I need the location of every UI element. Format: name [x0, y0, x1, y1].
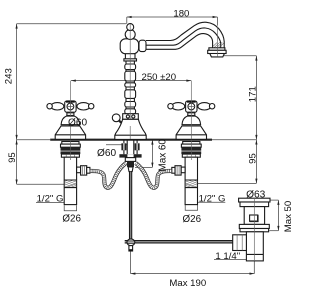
bell base rim line [115, 134, 146, 136]
leader 1/2G right [198, 201, 226, 203]
svg-text:Ø60: Ø60 [68, 118, 87, 129]
drain body [244, 207, 264, 225]
svg-text:Ø60: Ø60 [97, 148, 116, 159]
right valve centerline [190, 81, 192, 139]
center shank below deck [127, 140, 134, 154]
dim Max190 left extension [130, 251, 132, 273]
horseshoe washer [119, 154, 141, 157]
dim 95 left bottom extension [17, 183, 65, 185]
spout ball finial [127, 24, 134, 31]
svg-text:Max 50: Max 50 [283, 201, 294, 232]
leader for center diameter [106, 144, 127, 146]
spout turret [120, 39, 138, 54]
dim 180 arrows [127, 16, 132, 18]
deck extension right [212, 139, 256, 141]
column bell base [115, 119, 146, 139]
drain tailpiece [246, 232, 263, 261]
column neck under turret [125, 54, 135, 59]
svg-text:Max 190: Max 190 [169, 278, 206, 289]
dim Max190 line [131, 273, 255, 275]
dim 95 right line [255, 140, 257, 184]
svg-text:Ø63: Ø63 [246, 189, 266, 200]
deck extension left [17, 139, 51, 141]
left valve centerline [69, 81, 71, 139]
leader 1 1/4 [214, 258, 246, 260]
dim Max50 bottom extension [269, 230, 278, 232]
dim 180 line [127, 16, 218, 18]
column centerline [129, 24, 131, 119]
pop-up lever rod [119, 120, 126, 127]
dim 243 top extension [17, 23, 127, 25]
dim 180 left extension [126, 17, 128, 24]
dim 171 line [255, 56, 257, 140]
svg-text:1/2" G: 1/2" G [199, 194, 226, 205]
column bead 4 [125, 90, 136, 99]
dim 95 left line [16, 140, 18, 185]
drain centerline [253, 198, 255, 261]
linkage rod to drain [125, 241, 233, 243]
column bead 3 [125, 83, 136, 87]
dim 95 left arrows [16, 140, 18, 145]
spout outlet shading [213, 42, 224, 47]
pull rod [130, 172, 132, 240]
svg-text:Ø26: Ø26 [62, 214, 81, 225]
dim 95 right bottom extension [198, 182, 257, 184]
dim 171 arrows [255, 56, 257, 61]
right hose [136, 163, 172, 188]
right valve below deck [172, 140, 201, 205]
dim 250 line [71, 80, 191, 82]
mounting studs [124, 140, 137, 144]
deck / countertop line [50, 139, 212, 141]
spout tube mid line [146, 28, 221, 48]
dim Max190 right extension [253, 261, 255, 274]
column shaft core [126, 61, 134, 114]
svg-text:180: 180 [173, 9, 189, 20]
column bead 2 [125, 71, 136, 81]
svg-text:Ø26: Ø26 [183, 214, 202, 225]
dim 243 arrows [16, 24, 18, 29]
column ring nut with screws [123, 114, 139, 120]
svg-text:1 1/4": 1 1/4" [215, 251, 240, 262]
svg-text:Max 60: Max 60 [157, 139, 168, 172]
bracket dia26 right [185, 205, 197, 211]
dim 171 top extension [224, 55, 256, 57]
drain hex nut [233, 235, 247, 251]
spout ball large [125, 30, 135, 40]
dim Max50 top extension [270, 199, 278, 201]
spout tube outer edge [146, 22, 224, 48]
svg-text:250 ±20: 250 ±20 [141, 72, 176, 83]
column bead 6 [125, 109, 136, 114]
dim 180 right extension [216, 17, 218, 26]
pop-up lever ball [112, 114, 120, 122]
dim Max50 arrows [277, 200, 279, 205]
right handle [168, 101, 215, 139]
BODY [47, 22, 270, 261]
pull rod knob [127, 239, 135, 246]
pull rod tip [129, 246, 133, 251]
spout outlet rings [209, 48, 225, 51]
spout tube inner edge [146, 34, 213, 50]
column bead 1 [125, 64, 136, 70]
mounting bolt left [121, 143, 126, 150]
dim Max50 line [277, 200, 279, 231]
dim Max190 arrows [131, 273, 136, 275]
left hose [90, 163, 126, 188]
leader 1/2G left [36, 202, 64, 204]
mounting bolt right [135, 143, 140, 150]
svg-text:95: 95 [248, 153, 259, 164]
spout collar [139, 40, 146, 51]
bolt stems [124, 150, 137, 154]
svg-text:243: 243 [3, 68, 14, 84]
drain lower plates [239, 224, 269, 228]
bracket dia26 left [64, 205, 76, 211]
column flange ring [124, 59, 137, 61]
hose tee body [125, 158, 135, 162]
left valve below deck [61, 140, 90, 205]
dim 95 right arrows [255, 140, 257, 145]
DIMS [16, 16, 280, 275]
tee outlet cone [128, 167, 133, 172]
dim Max60 arrows [151, 140, 153, 145]
spout outlet centerline [217, 27, 219, 57]
dim Max60 line [151, 140, 153, 168]
svg-text:1/2" G: 1/2" G [37, 194, 64, 205]
svg-text:95: 95 [7, 152, 18, 163]
dim 250 arrows [71, 80, 76, 82]
dim Max60 bottom extension [135, 166, 152, 168]
drain flange top [239, 198, 270, 202]
left handle [47, 101, 94, 139]
drain overflow slot [250, 215, 258, 221]
dim 243 line [16, 24, 18, 140]
column bead 5 [125, 102, 136, 108]
svg-text:171: 171 [247, 86, 258, 102]
